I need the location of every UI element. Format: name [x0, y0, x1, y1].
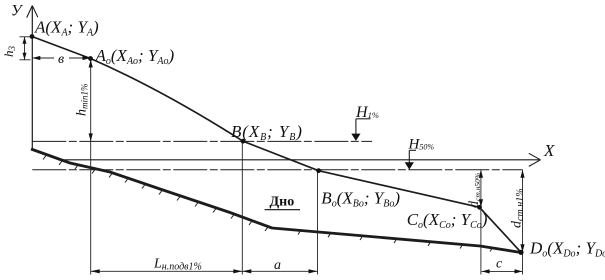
svg-text:в: в [58, 52, 64, 67]
svg-text:a: a [274, 258, 281, 273]
svg-text:Дно: Дно [270, 195, 295, 210]
svg-text:c: c [496, 257, 503, 272]
svg-text:X: X [543, 141, 555, 160]
